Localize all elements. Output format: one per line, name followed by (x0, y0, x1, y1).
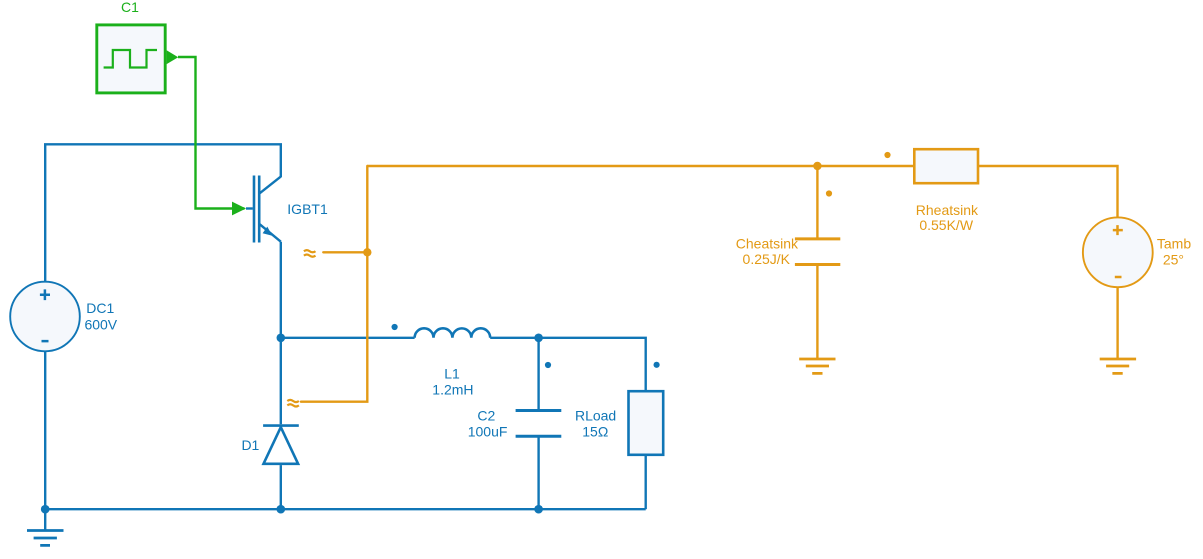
transistor IGBT1 (246, 176, 281, 243)
svg-text:C2: C2 (477, 407, 495, 423)
svg-text:0.55K/W: 0.55K/W (919, 217, 973, 233)
svg-text:600V: 600V (84, 317, 117, 333)
wire: IGBT thermal port to heatsink net (323, 251, 367, 253)
inductor L1 (415, 328, 491, 337)
svg-text:RLoad: RLoad (575, 407, 616, 423)
label Tamb 25deg (1157, 235, 1191, 267)
wire: node to inductor (281, 337, 415, 339)
temperature source Tamb (1083, 217, 1153, 287)
svg-text:L1: L1 (444, 366, 460, 382)
wire: D1 thermal port up to heatsink net (301, 166, 367, 402)
wire: gate signal from C1 to IGBT (178, 57, 245, 209)
ground (orange, under Tamb) (1100, 359, 1136, 373)
svg-text:15Ω: 15Ω (582, 423, 608, 439)
junction: D1 bottom node (277, 505, 286, 514)
junction: thermal net node (363, 248, 371, 256)
resistor RLoad (629, 391, 664, 509)
wire: Tamb to ground (1116, 287, 1118, 358)
svg-text:C1: C1 (121, 0, 139, 15)
thermal port (D1) (287, 400, 299, 407)
label Rheatsink 0.55K/W (916, 202, 979, 233)
wire: blue left rail and top rail to IGBT collector (45, 144, 281, 509)
junction: Cheatsink node (813, 162, 821, 170)
svg-text:DC1: DC1 (86, 300, 114, 316)
label L1 1.2mH (432, 366, 473, 398)
wire: blue bottom rail (45, 508, 646, 510)
probe dot C2 (545, 362, 551, 368)
label Cheatsink 0.25J/K (736, 236, 799, 267)
label DC1 600V (84, 300, 117, 333)
probe dot RLoad (654, 362, 660, 368)
wire: inductor to RLoad top (490, 338, 646, 391)
svg-text:D1: D1 (241, 437, 259, 453)
junction: emitter/L1/D1 node (277, 334, 286, 343)
diode D1 (263, 338, 299, 509)
thermal resistor Rheatsink (914, 149, 978, 183)
svg-text:1.2mH: 1.2mH (432, 381, 473, 397)
thermal capacitance Cheatsink (795, 166, 840, 358)
pulse generator C1 (97, 25, 178, 93)
wire: thermal top rail (367, 166, 1117, 217)
ground (orange, under Cheatsink) (799, 359, 835, 373)
wire: IGBT emitter down to node (280, 242, 282, 338)
svg-text:100uF: 100uF (468, 423, 508, 439)
junction: bottom-left node (41, 505, 50, 514)
svg-text:IGBT1: IGBT1 (287, 201, 328, 217)
svg-text:Tamb: Tamb (1157, 235, 1191, 251)
svg-text:0.25J/K: 0.25J/K (743, 251, 791, 267)
junction: L1/C2 node (534, 334, 543, 343)
probe dot Cheatsink (826, 190, 832, 196)
svg-text:25°: 25° (1163, 251, 1184, 267)
junction: C2 bottom node (534, 505, 543, 514)
svg-text:Rheatsink: Rheatsink (916, 202, 979, 218)
arrowhead: gate signal into IGBT1 (232, 202, 246, 216)
capacitor C2 (516, 338, 562, 509)
svg-text:Cheatsink: Cheatsink (736, 236, 799, 252)
voltage source DC1 (10, 282, 80, 352)
probe dot L1 (392, 324, 398, 330)
probe dot Rheatsink (884, 152, 890, 158)
label RLoad 15ohm (575, 407, 616, 439)
thermal port (IGBT1) (304, 250, 316, 257)
ground (blue, bottom left) (27, 509, 64, 545)
label C2 100uF (468, 407, 508, 439)
